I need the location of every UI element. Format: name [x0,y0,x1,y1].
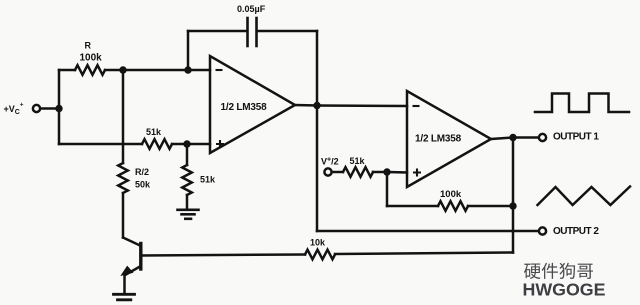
wire output2 vertical [316,106,319,232]
resistor R1 R 100k [75,65,105,75]
wire cap right vertical to output node [316,31,319,106]
resistor R7 10k [305,250,335,260]
wire 51k to plus node [172,143,187,146]
wire output node to U1B minus input [317,104,407,107]
wire to 100k [387,205,438,208]
terminal OUTPUT 2 [539,227,546,234]
resistor R2 51k input [142,139,172,149]
resistor R6 100k [438,201,468,211]
op-amp U1A minus sign [216,69,223,71]
wire vertical minus net down to R/2 [122,70,125,163]
node E junction U1A output [313,102,320,109]
capacitor C1 top right wire [257,30,317,33]
op-amp U1A triangle [210,56,295,153]
ground G1 [178,209,199,212]
svg-text:51k: 51k [200,175,216,185]
wire plus node to op-amp plus input [187,143,210,146]
node B junction minus input [119,66,126,73]
node H junction 100k feedback [509,202,516,209]
svg-text:OUTPUT 1: OUTPUT 1 [553,132,599,143]
wire right vertical output1 net [512,138,515,253]
wire minus node to cap tap [123,69,188,72]
op-amp U1B triangle [407,91,491,187]
resistor R3 R/2 50k [118,163,128,193]
wire U1A output to node [295,104,317,107]
terminal OUTPUT 1 [539,134,546,141]
op-amp U1B plus sign [413,169,421,177]
node C junction cap tap [184,66,191,73]
wire left vertical branch [58,70,61,144]
svg-text:100k: 100k [80,53,103,64]
resistor R4 51k vertical to ground [186,144,189,165]
svg-text:HWGOGE: HWGOGE [523,280,606,300]
node A junction +Vc [55,105,62,112]
wire R to minus node [105,69,123,72]
capacitor C1 left vertical wire [187,31,190,70]
wire U1B output [491,138,513,140]
node D junction plus input [183,140,190,147]
capacitor C1 top left wire [188,30,247,33]
wire R/2 to transistor collector [122,193,125,238]
transistor Q1 emitter diagonal with arrow [126,267,140,275]
svg-text:R/2: R/2 [135,167,149,177]
svg-text:R: R [85,41,92,51]
wire output node to OUTPUT 1 [513,136,539,139]
node G junction U1B output [509,134,516,141]
terminal V+/2 [324,168,331,175]
svg-text:100k: 100k [440,189,462,200]
svg-text:51k: 51k [350,156,366,166]
wire to resistor R [59,69,75,72]
watermark chinese 硬件狗哥 [524,263,593,279]
node F junction U1B plus [383,168,390,175]
op-amp U1B minus sign [413,105,420,107]
terminal +Vc [33,105,40,112]
op-amp U1A plus sign [216,140,224,148]
capacitor C1 plates 0.05uF [246,18,249,46]
transistor Q1 base bar [139,244,142,270]
wire 100k to right vertical [468,205,513,208]
wire 10k to right vertical [335,253,513,255]
wire bottom branch to 51k [59,143,142,146]
svg-text:10k: 10k [310,238,326,248]
svg-text:50k: 50k [135,180,151,190]
svg-text:0.05µF: 0.05µF [237,4,266,14]
transistor Q1 collector diagonal [123,238,140,246]
svg-text:1/2 LM358: 1/2 LM358 [221,102,268,113]
wire emitter to ground [123,275,126,294]
wire transistor base lead [141,255,305,256]
triangle wave symbol [538,187,631,206]
square wave symbol [535,94,629,113]
ground G2 [114,293,135,296]
wire feedback vertical from plus node [386,172,389,206]
wire cap tap to op-amp minus input [188,69,210,72]
wire output2 horizontal [317,230,539,233]
wire +Vc to node [41,107,60,110]
resistor R5 51k [343,167,373,177]
svg-text:51k: 51k [146,127,162,137]
wire V+/2 to 51k [332,171,343,174]
svg-text:OUTPUT 2: OUTPUT 2 [553,226,599,237]
wire 51k to plus node of U1B [373,171,387,174]
svg-text:1/2 LM358: 1/2 LM358 [415,134,462,145]
